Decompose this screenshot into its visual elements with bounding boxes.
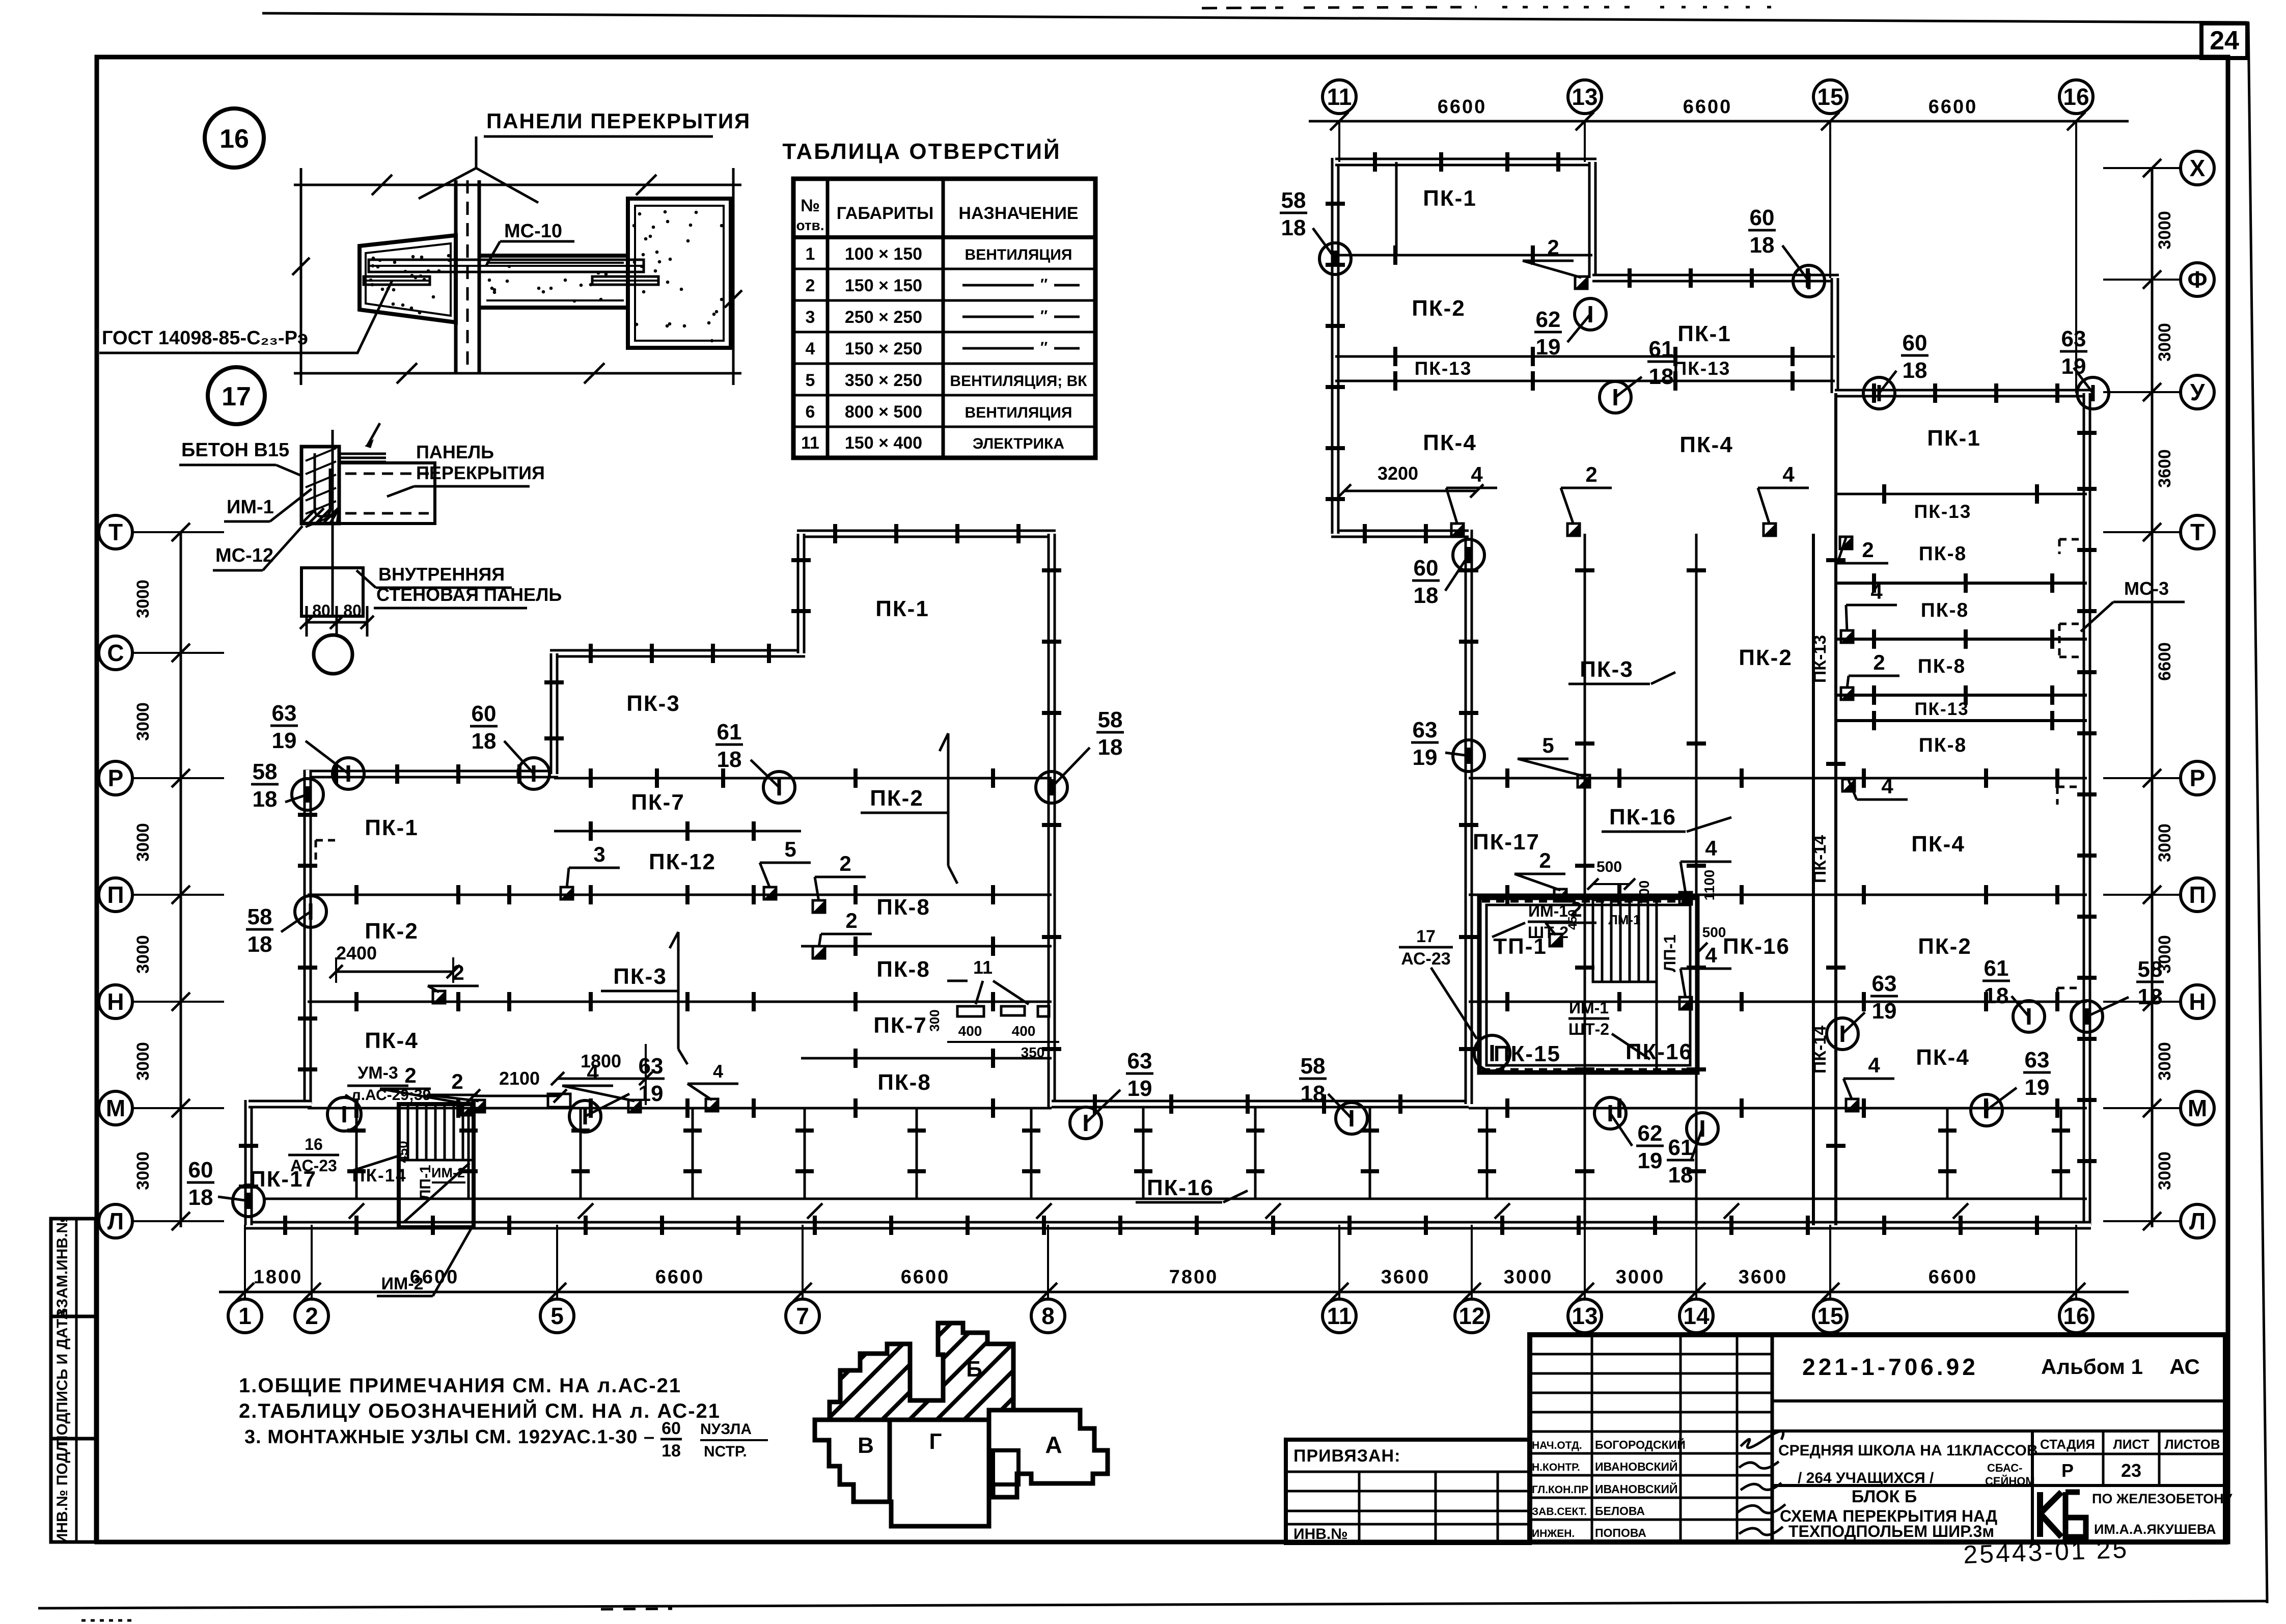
svg-text:П: П [107,882,124,908]
svg-text:18: 18 [188,1185,213,1210]
stair ЛП-1 right steps [1593,900,1657,1072]
svg-text:БЕЛОВА: БЕЛОВА [1595,1504,1645,1518]
svg-text:18: 18 [1984,983,2009,1008]
svg-text:6600: 6600 [1929,96,1978,118]
svg-text:ПК-17: ПК-17 [1473,830,1540,855]
flag 2 near 2400 [428,960,479,1003]
svg-text:ПК-4: ПК-4 [1916,1045,1970,1070]
svg-text:ПК-3: ПК-3 [1580,657,1634,682]
svg-text:24: 24 [2210,26,2239,56]
privyazan inv text [1293,1526,1348,1543]
rotated label ПК-13 column [1810,635,1830,683]
label МС-12 [213,526,302,570]
ticks wall 12 [1459,570,1478,1049]
rect symbol УМ on М line [548,1094,570,1107]
flag 4 on Т wall c [1758,462,1809,536]
strip label ПОДПИСЬ И ДАТА [54,1309,71,1446]
svg-text:4: 4 [1881,774,1893,798]
stair west labels [395,1141,434,1200]
joint row Р central block [801,768,1052,788]
detail16 MC-10 plate [369,260,644,272]
svg-text:ПК-16: ПК-16 [1609,805,1676,830]
svg-text:Н: Н [107,988,124,1015]
flag 2 col15 c [1841,650,1899,700]
svg-text:2: 2 [404,1063,416,1087]
svg-text:ПК-2: ПК-2 [365,919,419,944]
svg-text:ПК-4: ПК-4 [1679,432,1733,457]
joint 1365 (15-16) [1835,685,2087,705]
right axis circles [2103,151,2214,1238]
svg-text:ПК-2: ПК-2 [1739,645,1793,670]
key plan block А [989,1410,1108,1497]
svg-text:Б: Б [966,1357,982,1382]
left margin strip box [51,1219,96,1542]
label 17 АС-23 [1399,927,1477,1039]
joint row П left blocks [308,885,1052,904]
svg-text:6600: 6600 [410,1267,459,1288]
flag 2 central wall a [813,851,866,913]
svg-text:АС-23: АС-23 [290,1157,337,1175]
dim 500 stair b [1696,924,1726,954]
svg-text:Р: Р [2061,1460,2074,1481]
svg-text:ПЕРЕКРЫТИЯ: ПЕРЕКРЫТИЯ [416,462,545,483]
svg-text:2: 2 [845,909,857,932]
title sig row lines [1530,1354,1772,1520]
wall west end (М-Л) [244,1100,253,1225]
flag 4 on П line right [1679,836,1731,904]
wall axis 8 east (Т-М) [1048,534,1056,1108]
svg-text:60: 60 [1414,556,1439,581]
dashed corner symbol c [2057,787,2079,805]
svg-text:1.ОБЩИЕ ПРИМЕЧАНИЯ СМ. НА л.АС: 1.ОБЩИЕ ПРИМЕЧАНИЯ СМ. НА л.АС-21 [239,1374,681,1397]
svg-text:ПК-15: ПК-15 [1494,1041,1561,1066]
svg-text:60: 60 [188,1158,213,1182]
svg-text:8: 8 [1041,1303,1055,1329]
svg-text:19: 19 [1872,999,1897,1024]
svg-text:ПК-13: ПК-13 [1810,635,1830,683]
svg-text:3000: 3000 [133,580,153,618]
svg-text:″: ″ [1040,339,1048,356]
svg-text:80: 80 [312,601,330,620]
svg-text:ИМ-1: ИМ-1 [227,497,274,518]
svg-text:М: М [2188,1095,2207,1121]
node 60/18 on Ф line [1748,205,1825,297]
svg-text:ПК-8: ПК-8 [1919,543,1967,565]
svg-text:ПОДПИСЬ И ДАТА: ПОДПИСЬ И ДАТА [54,1309,71,1446]
svg-text:NСТР.: NСТР. [704,1443,747,1460]
dim 1100 rotated [1701,870,1717,901]
node 61/18 on Р line [715,720,795,803]
svg-text:ПК-3: ПК-3 [613,964,667,989]
svg-text:ПК-2: ПК-2 [870,786,924,811]
svg-text:ГОСТ 14098-85-С₂₃-Рэ: ГОСТ 14098-85-С₂₃-Рэ [102,327,308,349]
title code row [1802,1354,2200,1380]
leader to panels [419,136,538,203]
table column line 2 [942,179,945,458]
bottom axis circles [228,1299,2093,1333]
svg-text:ПК-2: ПК-2 [1918,934,1972,959]
room label ПК-3 right with arrow [1568,657,1675,684]
flag 4b on М line [687,1061,738,1111]
flag 5 on Р line right [1518,733,1590,787]
svg-text:3000: 3000 [133,935,153,974]
svg-text:ПК-8: ПК-8 [1919,734,1967,756]
privyazan grid horizontals [1286,1491,1530,1524]
wall central top (row Т, 7-8) [797,530,1056,538]
narrow panel column ПК-13/14 line b [1826,393,1846,1225]
svg-text:ПК-12: ПК-12 [649,849,716,874]
stair dashed edges ИМ-1 [1482,901,1696,1069]
node 58/18 on axis11 wall [1280,188,1351,274]
svg-text:ПК-13: ПК-13 [1914,501,1972,522]
svg-text:3600: 3600 [1739,1267,1788,1288]
svg-text:19: 19 [272,728,297,753]
svg-text:Р: Р [108,765,124,791]
node 58/18 at east wall [2071,957,2164,1032]
svg-text:1800: 1800 [254,1267,303,1288]
svg-text:100 × 150: 100 × 150 [845,244,922,264]
svg-text:ПРИВЯЗАН:: ПРИВЯЗАН: [1293,1446,1400,1466]
flag 3 on П line [561,842,620,899]
title stadia box [2032,1431,2225,1542]
room labels [250,186,1981,1200]
svg-text:2400: 2400 [336,943,377,964]
ticks wall bottom Л [285,1216,2037,1235]
svg-text:ПК-7: ПК-7 [631,790,685,815]
svg-text:Л: Л [2189,1208,2206,1234]
svg-text:АС-23: АС-23 [1401,949,1450,969]
flag 4 on М line left [562,1060,641,1112]
ticks wall С top [591,644,769,663]
svg-text:2: 2 [1539,848,1551,872]
svg-text:60: 60 [662,1419,681,1438]
svg-text:СБАС-: СБАС- [1987,1462,2022,1474]
note line 1 [239,1374,681,1397]
svg-text:УМ-3: УМ-3 [357,1063,398,1083]
detail17 U anchor ИМ-1 [315,453,330,516]
node 63/19 below Т centre [1070,1049,1153,1139]
flag 2 upper 13 [1523,235,1587,289]
left dimension line [180,532,182,1227]
svg-text:Альбом 1: Альбом 1 [2041,1355,2143,1379]
right dimension line [2151,168,2154,1227]
svg-text:С: С [107,640,124,666]
node 61/18 on У axis13 [1600,337,1675,413]
svg-text:ПК-1: ПК-1 [1927,426,1981,451]
wall corridor top at М (8-12) [1052,1100,1469,1109]
node 60/18 west end [187,1158,264,1217]
svg-text:3000: 3000 [133,823,153,862]
flag 2 corridor [380,1063,474,1115]
label 16 АС-23 [288,1135,401,1175]
room label ПК-3 lower with arrow [601,932,687,1064]
svg-text:3: 3 [593,842,605,866]
detail16 bottom dim line [294,363,741,383]
svg-text:58: 58 [253,759,278,784]
svg-text:15: 15 [1817,84,1843,110]
svg-text:3600: 3600 [1381,1267,1430,1288]
svg-text:ИВАНОВСКИЙ: ИВАНОВСКИЙ [1595,1482,1678,1496]
svg-text:2: 2 [1873,650,1885,674]
svg-text:150 × 400: 150 × 400 [845,433,922,453]
svg-text:2.ТАБЛИЦУ ОБОЗНАЧЕНИЙ СМ. НА л: 2.ТАБЛИЦУ ОБОЗНАЧЕНИЙ СМ. НА л. АС-21 [239,1399,721,1422]
svg-text:Х: Х [2190,155,2206,181]
room label ПК-16 corridor arrow [1136,1191,1248,1202]
title stadia texts [2040,1437,2220,1481]
label им-2 below [377,1229,471,1296]
flag 2 stair top right [1514,848,1566,901]
title block outer [1530,1335,2225,1542]
svg-text:6: 6 [806,402,815,422]
strip divider 1 [51,1315,96,1318]
note line 3 [244,1419,768,1461]
joint row Р right part [1469,768,2087,788]
svg-text:6600: 6600 [655,1267,705,1288]
flag 4 col15 b [1841,580,1897,643]
ticks wall Т top central [835,524,1018,543]
svg-text:ТАБЛИЦА ОТВЕРСТИЙ: ТАБЛИЦА ОТВЕРСТИЙ [782,138,1061,164]
svg-text:А: А [1045,1432,1062,1458]
flag 2 on Т wall b [1561,462,1612,536]
scan right edge line [2228,22,2267,1603]
svg-text:62: 62 [1638,1121,1663,1146]
ticks wall 8 [1042,570,1061,1049]
dim 450 rotated [1566,910,1580,930]
svg-text:2: 2 [1547,235,1559,259]
svg-text:6600: 6600 [1683,96,1732,118]
svg-text:Ф: Ф [2187,266,2207,293]
svg-text:18: 18 [1098,735,1123,760]
detail 16 marker circle [205,108,264,168]
joint row Н right part [1469,992,2087,1011]
svg-text:ИНЖЕН.: ИНЖЕН. [1532,1528,1575,1539]
node 61/18 right part Н [1982,956,2045,1032]
svg-text:ЛП-1: ЛП-1 [1661,934,1679,972]
svg-text:60: 60 [472,701,497,726]
svg-text:ТЕХПОДПОЛЬЕМ ШИР.3м: ТЕХПОДПОЛЬЕМ ШИР.3м [1788,1522,1994,1540]
svg-text:АС: АС [2169,1355,2200,1379]
right dimension texts [2155,211,2174,1190]
svg-text:У: У [2190,379,2206,405]
svg-text:1: 1 [806,244,815,264]
svg-text:3: 3 [806,308,815,327]
flag 2 central wall b [813,909,872,958]
joint central 1858 [801,937,1052,956]
svg-text:ЭЛЕКТРИКА: ЭЛЕКТРИКА [973,435,1064,452]
svg-text:ЗАВ.СЕКТ.: ЗАВ.СЕКТ. [1532,1506,1587,1518]
scan top edge line [262,7,2247,22]
svg-text:15: 15 [1817,1303,1843,1329]
svg-text:4: 4 [1705,836,1717,860]
svg-text:61: 61 [1984,956,2009,981]
svg-text:1100: 1100 [1701,870,1717,901]
svg-text:ГЛ.КОН.ПР: ГЛ.КОН.ПР [1532,1484,1588,1496]
svg-text:18: 18 [1750,233,1775,258]
ticks wall Т gap 11-12 [1365,524,1426,543]
ticks wall 7 [791,560,811,611]
ticks wall Р top [336,764,519,784]
stair west steps [399,1104,474,1160]
table header texts [796,196,1078,233]
detail16 right arm panel [480,256,628,308]
svg-text:4: 4 [1870,580,1883,603]
svg-text:6600: 6600 [1438,96,1487,118]
bottom axis stubs [236,1225,2085,1301]
joint ПК-13 row top a [1335,347,1835,366]
room label ПК-16 right with arrow [1602,805,1731,832]
flag 4 on Н line right [1679,943,1731,1009]
table column line 1 [826,179,830,458]
ticks wall У top [1874,383,2057,403]
label ИМ-1 ШТ-2 b [1568,999,1650,1059]
wall row У (15-16) [1835,389,2091,398]
detail17 dim 80 80 [300,601,374,637]
detail16 right block panel [628,199,731,348]
svg-text:3000: 3000 [1616,1267,1665,1288]
note line 2 [239,1399,721,1422]
table title [782,138,1061,164]
left axis circles [99,515,224,1238]
table header row line [793,235,1095,239]
svg-text:4: 4 [1868,1053,1880,1077]
ticks wall Ф top [1630,268,1808,288]
node 63/19 at corner У-16 [2060,326,2109,409]
handwritten 25443-01 25 [1963,1535,2129,1569]
svg-text:800 × 500: 800 × 500 [845,402,922,422]
svg-text:61: 61 [1649,337,1674,362]
detail16 top dim line [294,168,741,204]
svg-text:Л: Л [107,1208,124,1234]
svg-text:1800: 1800 [581,1051,621,1071]
svg-text:60: 60 [1750,205,1775,230]
svg-text:ВЗАМ.ИНВ.№: ВЗАМ.ИНВ.№ [54,1216,71,1319]
svg-text:19: 19 [2025,1075,2050,1100]
svg-text:П: П [2189,882,2206,908]
svg-text:ПК-13: ПК-13 [1673,358,1731,379]
wall left block top (row Р, 2-5) [304,770,558,779]
wall row Ф (13-15) [1592,274,1839,283]
svg-text:ПК-1: ПК-1 [365,815,419,840]
title code underline [1772,1399,2225,1402]
node 63/19 on М line left [569,1054,665,1132]
svg-text:400: 400 [958,1023,982,1039]
svg-text:2: 2 [839,851,851,875]
svg-text:6600: 6600 [1929,1267,1978,1288]
svg-text:19: 19 [2061,354,2086,379]
svg-text:ИМ-1: ИМ-1 [1569,999,1609,1017]
stair node circle АС-23 [1474,1035,1510,1071]
svg-text:62: 62 [1536,307,1561,332]
node 63/19 on М right part [1971,1048,2051,1126]
node 61/18 below М right [1667,1113,1718,1188]
node 63/19 right part Н [1827,971,1898,1050]
svg-text:ПАНЕЛЬ: ПАНЕЛЬ [416,442,494,462]
svg-text:12: 12 [1458,1303,1484,1329]
svg-text:19: 19 [639,1081,664,1106]
joint central 2078 [801,1049,1052,1068]
dashed corner symbol d [2057,988,2079,1006]
svg-text:2: 2 [1585,462,1597,486]
wall left block west (axis 2) [304,770,312,1104]
svg-text:ШТ-2: ШТ-2 [1568,1020,1609,1038]
svg-text:17: 17 [1416,927,1436,946]
label ГОСТ 14098-85-С23-Рэ [99,281,392,353]
label МС-10 [486,221,574,265]
svg-text:ЛИСТОВ: ЛИСТОВ [2164,1437,2220,1452]
svg-text:23: 23 [2121,1460,2141,1481]
detail17 wall centerline [332,430,334,616]
svg-text:61: 61 [717,720,742,745]
svg-text:БЕТОН В15: БЕТОН В15 [181,439,289,461]
key plan block Б hatched [830,1323,1013,1420]
joint 1415 (15-16) [1835,711,2087,730]
svg-text:отв.: отв. [796,217,824,233]
svg-text:ПК-16: ПК-16 [1147,1175,1214,1200]
svg-text:18: 18 [1414,583,1439,608]
svg-text:ПК-4: ПК-4 [365,1028,419,1053]
svg-text:5: 5 [550,1303,564,1329]
node 58/18 on М line mid2 [1299,1054,1367,1134]
svg-text:1: 1 [238,1303,252,1329]
svg-text:МС-3: МС-3 [2124,578,2169,599]
svg-text:350: 350 [1021,1044,1045,1060]
label ИМ-1 ШТ-2 a [1492,902,1568,942]
detail17 weld plates [339,423,386,462]
corridor strip panel joints [347,1108,2070,1199]
svg-text:ПОПОВА: ПОПОВА [1595,1526,1646,1539]
svg-text:13: 13 [1572,1303,1598,1329]
svg-text:80: 80 [343,601,362,620]
joint ПК-13 row top b [1335,371,1835,391]
svg-text:18: 18 [2138,984,2163,1009]
svg-text:63: 63 [2061,326,2086,351]
svg-text:6600: 6600 [2155,642,2174,681]
svg-text:61: 61 [1668,1135,1693,1160]
svg-text:2: 2 [305,1303,318,1329]
wall axis 7 upper (Т-С) [797,534,806,653]
title KB logo [2040,1492,2086,1537]
joint row П right part [1469,885,2087,904]
svg-text:14: 14 [1683,1303,1710,1329]
svg-text:4: 4 [1471,462,1483,486]
svg-text:ЛМ-1: ЛМ-1 [1608,912,1640,927]
ticks wall Х top [1375,152,1558,172]
title KB texts [2092,1491,2233,1537]
svg-text:2100: 2100 [499,1068,540,1089]
wall М at west end (1-2) [249,1100,312,1109]
svg-text:450: 450 [395,1141,410,1163]
svg-text:150 × 150: 150 × 150 [845,276,922,295]
detail16 left dim line [292,173,310,385]
dim 2100 left [467,1068,567,1103]
key plan block Г [890,1420,989,1526]
svg-text:3000: 3000 [2155,323,2174,362]
svg-text:ВЕНТИЛЯЦИЯ; ВК: ВЕНТИЛЯЦИЯ; ВК [950,373,1087,390]
svg-text:ПК-3: ПК-3 [626,691,680,716]
svg-text:МС-10: МС-10 [504,221,562,242]
svg-text:11: 11 [973,957,993,978]
svg-text:Р: Р [2190,765,2206,791]
svg-text:7: 7 [796,1303,809,1329]
svg-text:150 × 250: 150 × 250 [845,339,922,359]
svg-text:400: 400 [1012,1023,1036,1039]
svg-text:5: 5 [784,837,796,861]
svg-text:Т: Т [2190,519,2205,545]
wall axis 12 west (Т-М) [1465,530,1473,1104]
ticks wall 5 [544,682,564,738]
joint 1255 (15-16) [1835,629,2087,649]
svg-text:350 × 250: 350 × 250 [845,371,922,390]
